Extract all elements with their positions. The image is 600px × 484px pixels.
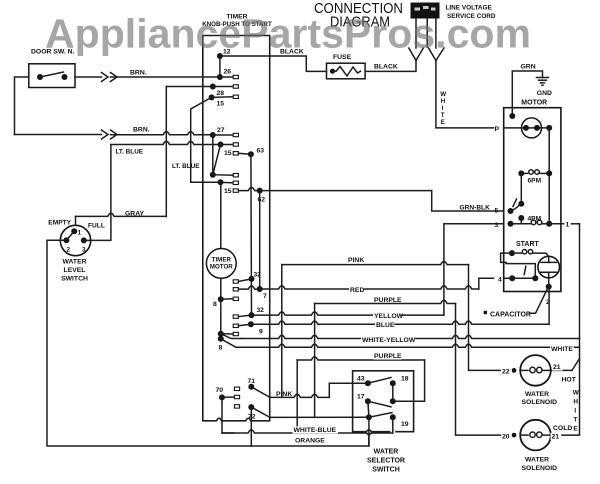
- wire pink 71 row: [270, 394, 329, 397]
- contact 9: [233, 324, 238, 327]
- node selector 43: [365, 380, 371, 386]
- capacitor plates: [548, 257, 550, 263]
- wire row3 left down orange: [368, 417, 370, 446]
- label 21 hot: [552, 363, 563, 370]
- node selector 18: [390, 380, 396, 386]
- cold water solenoid: [520, 420, 551, 451]
- svg-text:COLD: COLD: [553, 425, 572, 432]
- node timer terminal 27: [210, 132, 216, 138]
- motor box outline: [504, 108, 561, 292]
- wire white from plug down to P: [436, 61, 494, 128]
- wire start winding bracket: [501, 253, 512, 262]
- node P winding right: [534, 125, 540, 131]
- svg-text:T: T: [441, 112, 445, 119]
- svg-text:TIMER: TIMER: [212, 257, 232, 264]
- wire 18 to row2: [392, 383, 394, 401]
- wire 72 row to selector: [270, 416, 369, 418]
- svg-text:E: E: [573, 426, 578, 433]
- svg-text:I: I: [442, 105, 444, 112]
- wire plug right prong down: [435, 19, 437, 49]
- wire 70 down to white-blue: [222, 397, 234, 433]
- svg-text:70: 70: [216, 387, 224, 394]
- connector arrows on black line: [409, 48, 416, 61]
- svg-text:SWITCH: SWITCH: [61, 276, 88, 283]
- wire 27 to contact: [213, 134, 233, 136]
- node run contact: [518, 201, 524, 207]
- node selector 19: [390, 414, 396, 420]
- contact 62 feed: [233, 189, 238, 192]
- contact 15a: [233, 95, 238, 98]
- svg-text:YELLOW: YELLOW: [374, 313, 404, 320]
- wire plug middle prong down: [426, 19, 428, 48]
- label RED: [349, 287, 364, 294]
- connector arrows on white line: [429, 48, 436, 61]
- wire PURPLE2 row: [296, 360, 298, 433]
- svg-text:WATER: WATER: [62, 259, 86, 266]
- node timer terminal 28: [210, 84, 216, 90]
- wire 15c down to timer motor: [220, 182, 222, 248]
- contact 32b: [233, 315, 238, 318]
- svg-text:LT. BLUE: LT. BLUE: [172, 163, 200, 170]
- svg-text:GRN: GRN: [521, 64, 536, 71]
- node WLS terminal 1: [71, 228, 77, 234]
- wire 19 down to white-blue: [392, 417, 394, 433]
- svg-text:15: 15: [224, 150, 232, 157]
- selector blade 17: [368, 401, 391, 407]
- wire 62 down to GRN-BLK: [432, 191, 504, 211]
- svg-text:PINK: PINK: [276, 391, 292, 398]
- wire 15b to contact: [221, 144, 234, 146]
- contact 28: [233, 85, 238, 88]
- node timer terminal 71: [248, 384, 254, 390]
- svg-text:WHITE-YELLOW: WHITE-YELLOW: [362, 337, 416, 344]
- svg-text:1: 1: [566, 222, 570, 229]
- contact 27: [233, 133, 238, 136]
- selector blade row3: [369, 413, 392, 418]
- node motor ground junction: [509, 113, 515, 119]
- wire 15c to contact: [221, 181, 234, 184]
- wire 71 up to 43: [329, 383, 368, 397]
- wire 63 to 32 vertical: [250, 154, 253, 315]
- svg-text:28: 28: [217, 90, 225, 97]
- wire ORANGE row: [251, 436, 369, 446]
- node selector 17: [365, 398, 371, 404]
- node timer junction below 27: [210, 172, 216, 178]
- wire 26 to contact: [220, 76, 233, 78]
- wire gray riser: [165, 87, 167, 217]
- svg-text:BLUE: BLUE: [376, 322, 395, 329]
- wire 27 down to junction: [212, 135, 214, 175]
- wire 8a to contact: [221, 298, 233, 300]
- wire BRN2 row: [15, 134, 102, 136]
- svg-text:W: W: [440, 91, 446, 98]
- svg-text:32: 32: [254, 272, 262, 279]
- water level switch body: [60, 225, 90, 255]
- svg-text:3: 3: [495, 222, 499, 229]
- node motor right bus top: [546, 125, 552, 131]
- door switch contacts: [37, 74, 43, 80]
- svg-text:I: I: [574, 408, 576, 415]
- wire 72 down to orange: [250, 407, 252, 446]
- svg-text:PINK: PINK: [348, 257, 364, 264]
- wire 6PM left leg down to run contact: [520, 173, 522, 203]
- node timer terminal 8b: [218, 331, 224, 337]
- fuse F1: [327, 63, 366, 79]
- wire BRN door to timer 26: [75, 76, 102, 78]
- contact 70: [234, 395, 239, 398]
- label WHITE-YELLOW: [361, 336, 415, 343]
- wire 15a to contact: [212, 96, 233, 99]
- svg-text:8: 8: [219, 345, 223, 352]
- wire fuse to timer terminal 12: [270, 56, 327, 71]
- contact 8a: [233, 297, 238, 300]
- wire GRN from motor to ground: [512, 71, 542, 116]
- winding 4PM row: [511, 223, 531, 225]
- label WHITE: [550, 345, 574, 352]
- svg-text:27: 27: [217, 127, 225, 134]
- motor main winding circle: [522, 118, 542, 138]
- node motor terminal 5: [508, 208, 514, 214]
- wire PINK to hot solenoid 22: [469, 265, 507, 371]
- node timer terminal 15b: [218, 142, 224, 148]
- wire RED row: [260, 286, 479, 289]
- wire PINK row: [282, 261, 469, 264]
- wire 12 to 26: [219, 56, 221, 77]
- wire hot 21 stub: [551, 369, 572, 371]
- node 6PM left: [518, 170, 524, 176]
- label PURPLE2: [373, 352, 401, 359]
- svg-text:SELECTOR: SELECTOR: [367, 458, 405, 465]
- contact 15b: [233, 143, 238, 146]
- wire 62 to 7 vertical: [259, 191, 261, 289]
- node start contact 4PM: [518, 215, 524, 221]
- node timer terminal 8c: [218, 336, 224, 342]
- svg-text:15: 15: [224, 188, 232, 195]
- node cold 20: [512, 433, 517, 438]
- svg-text:63: 63: [257, 148, 265, 155]
- svg-text:START: START: [516, 241, 540, 248]
- svg-text:15: 15: [217, 101, 225, 108]
- wire door switch left leg: [15, 77, 29, 135]
- node timer terminal 32b: [249, 312, 255, 318]
- svg-text:26: 26: [224, 69, 232, 76]
- wire WHITE-YELLOW row: [242, 335, 580, 338]
- node capacitor bottom / terminal 2: [546, 284, 552, 290]
- start switch actuator tick: [524, 266, 526, 274]
- svg-text:2: 2: [67, 247, 71, 254]
- wire WLS top riser / gray: [75, 216, 77, 225]
- svg-text:GRAY: GRAY: [125, 210, 144, 217]
- capacitor circle: [538, 256, 560, 278]
- svg-text:W: W: [573, 390, 580, 397]
- svg-text:22: 22: [502, 369, 510, 376]
- wire PINK riser from 71: [281, 265, 283, 397]
- svg-text:8: 8: [213, 301, 217, 308]
- svg-text:WATER: WATER: [525, 391, 549, 398]
- wire junction to 15b diagonal: [213, 145, 221, 175]
- wire BLUE row: [251, 321, 549, 324]
- water selector switch box: [353, 371, 414, 435]
- wire motor 3 to yellow: [444, 224, 504, 315]
- timer box outline: [203, 36, 270, 421]
- connector arrows BRN2: [102, 130, 109, 139]
- WLS blade 2-1: [66, 231, 74, 240]
- start winding row: [509, 250, 515, 256]
- wire lt.blue riser to switch 3: [85, 145, 111, 240]
- node timer terminal 70: [219, 394, 225, 400]
- wire 8a down to 8b: [220, 299, 222, 339]
- start switch blade 4: [512, 277, 535, 279]
- svg-text:6PM: 6PM: [528, 178, 542, 185]
- svg-text:1: 1: [78, 230, 82, 237]
- node timer terminal 62: [257, 188, 263, 194]
- svg-text:FULL: FULL: [88, 223, 105, 230]
- svg-text:LT. BLUE: LT. BLUE: [116, 149, 144, 156]
- label 22: [501, 368, 512, 375]
- node timer terminal 72: [248, 404, 254, 410]
- winding 6PM row: [521, 172, 527, 174]
- node motor terminal 3: [508, 221, 514, 227]
- svg-text:WATER: WATER: [374, 449, 399, 456]
- label CAPACITOR with bullet: [484, 311, 487, 314]
- node timer terminal 32a: [249, 276, 255, 282]
- label YELLOW: [373, 312, 401, 319]
- svg-text:4: 4: [498, 276, 502, 283]
- svg-text:32: 32: [257, 307, 265, 314]
- contact 32a: [233, 280, 238, 283]
- svg-text:SWITCH: SWITCH: [372, 467, 400, 474]
- svg-text:HOT: HOT: [562, 377, 577, 384]
- node timer terminal 63: [248, 151, 254, 157]
- svg-text:PURPLE: PURPLE: [374, 297, 402, 304]
- node WLS terminal 3: [81, 237, 87, 243]
- contact 26: [233, 75, 238, 78]
- svg-text:20: 20: [502, 433, 510, 440]
- svg-text:BLACK: BLACK: [374, 64, 398, 71]
- contact 8b: [233, 332, 238, 335]
- node hot 22: [512, 368, 517, 373]
- svg-text:43: 43: [357, 376, 365, 383]
- svg-text:WHITE: WHITE: [551, 346, 573, 353]
- wire WLS 2 to bottom loop: [47, 240, 251, 446]
- node selector row2 right: [390, 398, 396, 404]
- door switch blade: [40, 72, 64, 77]
- svg-text:BRN.: BRN.: [133, 127, 150, 134]
- wire motor right bus: [548, 128, 550, 224]
- svg-text:19: 19: [401, 421, 409, 428]
- wire 15a diagonal to LT.BLUE riser: [191, 97, 212, 182]
- ground GND symbol: [537, 77, 549, 79]
- node P winding left: [523, 125, 529, 131]
- svg-text:SOLENOID: SOLENOID: [522, 399, 558, 406]
- wire 12 to fuse line: [220, 55, 270, 57]
- wire motor P row: [504, 127, 550, 129]
- wire 28 row: [166, 86, 233, 88]
- svg-text:H: H: [573, 399, 578, 406]
- wire 62 row: [238, 187, 431, 190]
- selector blade 43: [368, 378, 391, 384]
- contact below 27: [233, 174, 238, 177]
- wire black from plug to fuse: [365, 61, 416, 72]
- svg-text:MOTOR: MOTOR: [521, 100, 547, 107]
- svg-text:T: T: [573, 417, 577, 424]
- connector arrows BRN1: [102, 73, 109, 82]
- wire PURPLE row: [314, 304, 316, 418]
- svg-text:H: H: [441, 98, 446, 105]
- svg-text:RED: RED: [350, 287, 364, 294]
- svg-text:21: 21: [553, 364, 561, 371]
- wire WHITE-BLUE row: [222, 430, 393, 433]
- svg-text:21: 21: [552, 433, 560, 440]
- timer motor M1: [206, 249, 236, 279]
- label 20: [501, 433, 512, 440]
- svg-text:CAPACITOR: CAPACITOR: [490, 312, 531, 319]
- start switch enclosure: [506, 264, 535, 277]
- wire contact to 63: [238, 153, 251, 154]
- svg-text:9: 9: [259, 329, 263, 336]
- svg-text:3: 3: [82, 247, 86, 254]
- hot water solenoid: [520, 355, 551, 386]
- wire 72 diagonal: [251, 407, 270, 417]
- contact 7 feed: [233, 288, 238, 291]
- label 21 cold: [551, 433, 562, 440]
- svg-text:SOLENOID: SOLENOID: [522, 465, 558, 472]
- svg-text:GND: GND: [537, 90, 552, 97]
- node start switch common: [532, 275, 538, 281]
- node 4PM right junction: [546, 221, 552, 227]
- node timer terminal 8a: [218, 296, 224, 302]
- node WLS terminal 2: [63, 237, 69, 243]
- door switch box: [29, 64, 75, 88]
- svg-text:AppliancePartsPros.com: AppliancePartsPros.com: [45, 11, 531, 57]
- label WHITE-BLUE: [293, 426, 339, 433]
- wire lt.blue corner: [111, 141, 220, 144]
- contact 63 feed: [233, 152, 238, 155]
- node timer terminal 7: [257, 286, 263, 292]
- svg-text:62: 62: [258, 197, 266, 204]
- svg-text:PURPLE: PURPLE: [374, 353, 402, 360]
- svg-text:18: 18: [401, 376, 409, 383]
- wire 8c diagonal to white: [221, 339, 246, 348]
- wire 71 diagonal: [251, 387, 270, 398]
- wire riser to 15c: [191, 181, 221, 183]
- wire plug left prong down: [415, 19, 417, 49]
- svg-text:17: 17: [357, 394, 365, 401]
- node timer terminal 12: [217, 53, 223, 59]
- wire motor terminal 1 out: [549, 223, 563, 225]
- wire 17 to row3 left: [368, 401, 369, 417]
- contact 71: [234, 387, 239, 390]
- node timer terminal 26: [217, 74, 223, 80]
- node 6PM right: [546, 170, 552, 176]
- svg-text:4PM: 4PM: [528, 216, 542, 223]
- node timer terminal 15a: [209, 94, 215, 100]
- contact 15c: [233, 181, 238, 184]
- capacitor callout line: [530, 290, 547, 314]
- svg-text:71: 71: [248, 378, 256, 385]
- wire WHITE row: [246, 344, 580, 347]
- svg-text:EMPTY: EMPTY: [48, 220, 71, 227]
- contact 72: [234, 405, 239, 408]
- centrifugal switch blade from 5: [511, 205, 521, 212]
- svg-text:E: E: [441, 119, 445, 126]
- wire YELLOW row: [252, 312, 444, 315]
- svg-text:7: 7: [263, 293, 267, 300]
- svg-text:GRN-BLK: GRN-BLK: [460, 205, 491, 212]
- svg-text:WATER: WATER: [525, 457, 549, 464]
- line voltage service cord plug: [411, 3, 440, 19]
- wire right bus motor1 to cold 21: [551, 224, 580, 435]
- label BLUE: [375, 322, 394, 329]
- wire timer motor to 8a: [220, 278, 222, 299]
- node motor terminal 4: [509, 275, 515, 281]
- node timer terminal 15c: [218, 179, 224, 185]
- svg-text:ORANGE: ORANGE: [295, 438, 325, 445]
- wire 8b diagonal to white-yellow: [221, 334, 242, 339]
- svg-text:WHITE-BLUE: WHITE-BLUE: [294, 427, 337, 434]
- node selector row3 left: [366, 414, 372, 420]
- svg-text:MOTOR: MOTOR: [210, 264, 233, 271]
- svg-text:P: P: [495, 126, 500, 133]
- svg-text:BRN.: BRN.: [130, 70, 147, 77]
- svg-text:LEVEL: LEVEL: [64, 267, 86, 274]
- node timer terminal 9: [248, 321, 254, 327]
